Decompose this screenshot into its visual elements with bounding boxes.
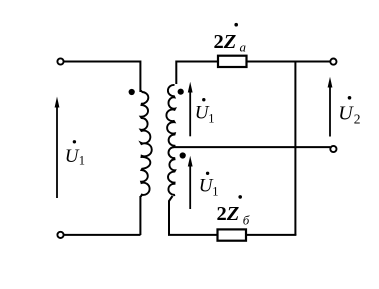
svg-text:1: 1 <box>212 185 218 199</box>
wire left vertical top <box>139 61 141 93</box>
wire Rb to right vertical <box>246 234 296 236</box>
svg-text:2: 2 <box>354 112 361 127</box>
wire left vertical bottom <box>139 196 141 235</box>
resistor 2Zb <box>218 229 247 240</box>
wire right vertical (joins Ra and Rb outputs) <box>294 62 296 236</box>
terminal T1 (top-left input) <box>57 58 63 64</box>
svg-text:1: 1 <box>79 154 85 168</box>
arrow U1 lower half <box>188 156 193 209</box>
svg-text:1: 1 <box>208 111 214 125</box>
wire from top of primary winding hook <box>140 90 142 92</box>
svg-text:a: a <box>240 40 247 55</box>
svg-text:2Z: 2Z <box>214 31 237 53</box>
wire top-left horizontal <box>64 61 141 63</box>
wire from winding bottom to vertical <box>140 195 142 197</box>
primary winding W1 <box>141 92 152 196</box>
label U1 upper <box>195 98 215 125</box>
label U2 <box>338 96 360 127</box>
wire secondary top corner to resistor <box>176 62 217 85</box>
terminal T2 (bottom-left input) <box>57 232 63 238</box>
polarity dot secondary upper <box>178 89 184 95</box>
center tap wire to T4 <box>173 146 331 148</box>
label U1 lower <box>199 172 219 199</box>
wire Ra to T3 <box>247 61 331 63</box>
svg-text:2Z: 2Z <box>217 203 240 225</box>
label 2Zb <box>217 195 250 227</box>
terminal T3 (top-right output) <box>330 59 336 65</box>
svg-text:б: б <box>243 213 250 228</box>
arrow U1 upper half <box>188 82 193 137</box>
secondary winding upper W2a <box>166 85 175 147</box>
svg-text:U: U <box>338 103 354 125</box>
svg-text:U: U <box>65 146 80 167</box>
arrow U1 input (left) <box>55 97 60 199</box>
arrow U2 output <box>328 77 333 137</box>
resistor 2Za <box>218 56 247 67</box>
wire secondary bottom <box>169 196 173 235</box>
polarity dot secondary lower <box>180 152 186 158</box>
wire bottom horizontal (secondary to Rb) <box>168 234 218 236</box>
polarity dot primary <box>129 89 135 95</box>
label U1 left <box>65 140 85 168</box>
terminal T4 (mid-right output) <box>330 146 336 152</box>
label 2Za <box>214 23 247 55</box>
secondary winding lower W2b <box>168 147 175 196</box>
wire bottom-left horizontal <box>64 234 141 236</box>
